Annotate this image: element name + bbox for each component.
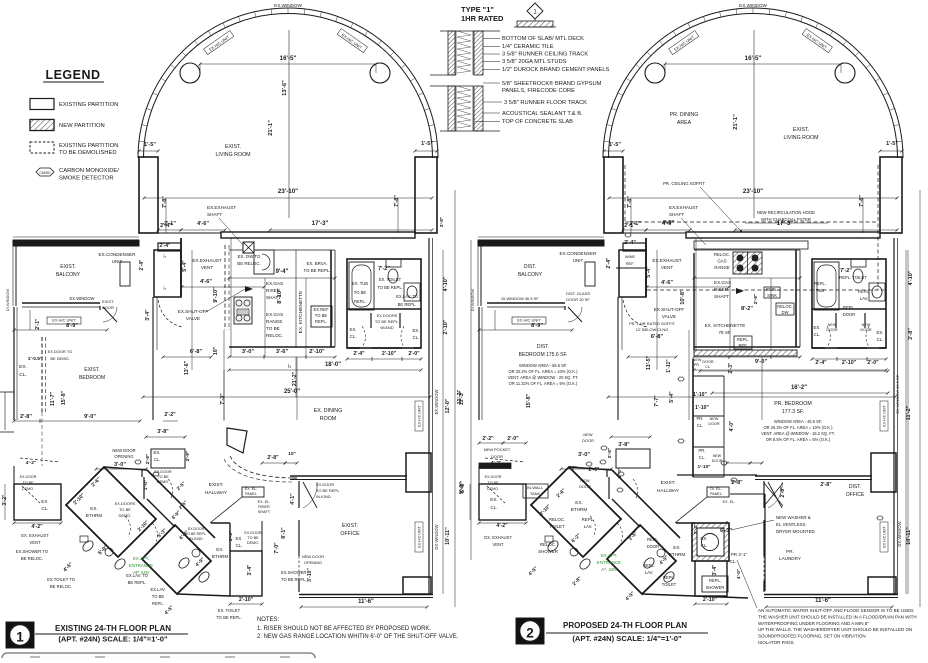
svg-text:2'-3": 2'-3" (728, 362, 734, 373)
svg-text:LEGEND: LEGEND (45, 68, 100, 82)
svg-text:2'-0": 2'-0" (507, 436, 519, 442)
svg-text:PANEL: PANEL (245, 492, 257, 496)
svg-text:NOTES:: NOTES: (257, 617, 279, 623)
svg-text:LAV.: LAV. (584, 524, 593, 529)
svg-text:DOOR 20 SF: DOOR 20 SF (566, 297, 590, 302)
svg-text:PR.: PR. (694, 363, 700, 367)
svg-text:UNIT: UNIT (112, 259, 123, 264)
svg-text:2'-0": 2'-0" (867, 360, 879, 366)
svg-text:HALLWAY: HALLWAY (657, 488, 680, 494)
svg-text:3'-0": 3'-0" (242, 349, 255, 355)
svg-text:IN-KIND: IN-KIND (316, 494, 331, 499)
svg-text:2'-10": 2'-10" (382, 351, 397, 357)
svg-text:12' BELOW CLNG: 12' BELOW CLNG (636, 327, 669, 332)
svg-text:TOILET: TOILET (549, 524, 565, 529)
svg-text:DI.WINDOW 36.5 SF: DI.WINDOW 36.5 SF (501, 296, 539, 301)
svg-text:EX.: EX. (575, 500, 582, 505)
svg-text:4'-6": 4'-6" (662, 220, 674, 226)
svg-text:CL.: CL. (413, 335, 420, 340)
svg-text:DW: DW (782, 310, 789, 315)
svg-text:TO BE: TO BE (488, 481, 499, 485)
svg-text:DOOR: DOOR (860, 328, 872, 332)
svg-text:EXISTING PARTITION: EXISTING PARTITION (59, 143, 118, 149)
svg-text:2'-8": 2'-8" (145, 454, 151, 464)
svg-text:3'-8": 3'-8" (157, 429, 169, 435)
svg-text:23'-10": 23'-10" (278, 188, 298, 195)
svg-text:4'-0": 4'-0" (729, 420, 735, 431)
svg-text:REPL.: REPL. (858, 289, 870, 294)
svg-text:OR 26.3% OF FL. AREA = 10% (O.: OR 26.3% OF FL. AREA = 10% (O.K.) (764, 425, 834, 430)
svg-text:2'-9": 2'-9" (185, 451, 191, 461)
svg-text:W/AND: W/AND (380, 325, 393, 330)
svg-text:4'-2": 4'-2" (496, 523, 508, 529)
svg-text:NEW: NEW (828, 323, 837, 327)
svg-text:BTHRM: BTHRM (571, 507, 588, 512)
svg-text:TO BE DEMOLISHED: TO BE DEMOLISHED (59, 150, 117, 156)
svg-text:DOOR: DOOR (826, 328, 838, 332)
svg-text:VALVE: VALVE (186, 316, 200, 321)
svg-text:AP. 24N: AP. 24N (133, 570, 149, 575)
svg-text:VENT: VENT (201, 265, 213, 270)
svg-text:RELOC.: RELOC. (777, 304, 792, 309)
svg-text:NEW: NEW (580, 478, 589, 483)
svg-text:11'-6": 11'-6" (358, 599, 374, 605)
svg-text:DEMO.: DEMO. (22, 487, 34, 491)
svg-text:BOTTOM OF SLAB/ MTL DECK: BOTTOM OF SLAB/ MTL DECK (502, 36, 584, 42)
svg-text:78 SF.: 78 SF. (718, 330, 731, 335)
svg-text:RANGE: RANGE (714, 265, 730, 270)
svg-text:EX.EXHAUST: EX.EXHAUST (192, 258, 221, 263)
svg-text:16'-2": 16'-2" (791, 385, 807, 391)
svg-text:OFFICE: OFFICE (340, 531, 360, 537)
svg-text:2'-8": 2'-8" (753, 294, 759, 304)
svg-text:BALCONY: BALCONY (518, 272, 543, 278)
svg-text:2'-4": 2'-4" (693, 524, 699, 534)
svg-text:SHAFT: SHAFT (258, 510, 271, 514)
svg-text:BEDROOM: BEDROOM (79, 375, 105, 381)
svg-text:EX. KITCHENETTE: EX. KITCHENETTE (705, 323, 746, 328)
svg-text:EX.: EX. (673, 545, 680, 550)
svg-text:RISER: RISER (266, 288, 281, 293)
svg-text:1/2" DUROCK BRAND CEMENT PANEL: 1/2" DUROCK BRAND CEMENT PANELS (502, 67, 610, 73)
svg-text:177.3 SF.: 177.3 SF. (782, 409, 804, 415)
svg-text:TO BE REPL.: TO BE REPL. (316, 488, 340, 493)
svg-text:EX.DOOR: EX.DOOR (154, 470, 172, 474)
svg-text:BE RELOC.: BE RELOC. (237, 261, 260, 266)
svg-text:5'-0": 5'-0" (460, 481, 466, 493)
svg-text:10'-11": 10'-11" (906, 527, 912, 545)
svg-text:BE DEMO.: BE DEMO. (50, 356, 69, 361)
svg-text:EX.CONDENSER: EX.CONDENSER (99, 252, 137, 257)
svg-text:2'-4": 2'-4" (606, 257, 612, 268)
svg-text:TO BE: TO BE (247, 536, 259, 540)
svg-text:RISER: RISER (258, 505, 270, 509)
svg-text:EX.DOOR: EX.DOOR (316, 482, 334, 487)
svg-text:OPENING: OPENING (304, 560, 322, 565)
svg-text:2'-6": 2'-6" (589, 467, 600, 473)
svg-text:EX.DOOR: EX.DOOR (20, 475, 37, 479)
svg-text:SINK: SINK (767, 293, 777, 298)
svg-text:REPL.: REPL. (354, 299, 366, 304)
svg-text:7'-0": 7'-0" (274, 542, 280, 554)
svg-text:9'-4": 9'-4" (276, 269, 289, 275)
svg-text:5/8" SHEETROCK® BRAND GYPSUM: 5/8" SHEETROCK® BRAND GYPSUM (502, 80, 602, 87)
svg-text:1'-0.5": 1'-0.5" (28, 356, 42, 362)
svg-text:4'-6": 4'-6" (200, 279, 212, 285)
svg-text:2'-1": 2'-1" (624, 223, 636, 229)
svg-text:PR.: PR. (786, 549, 794, 554)
svg-text:EX.: EX. (412, 328, 419, 333)
svg-text:9'-0": 9'-0" (84, 414, 96, 420)
svg-text:UP THE WALLS. THE WASHER/DRYER: UP THE WALLS. THE WASHER/DRYER UNIT SHOU… (758, 627, 912, 632)
svg-text:DOOR: DOOR (491, 454, 503, 459)
svg-text:EX.WINDOW: EX.WINDOW (739, 3, 767, 8)
svg-text:EX.WINDOW 46.6 SF.: EX.WINDOW 46.6 SF. (895, 374, 900, 413)
svg-text:7'-2": 7'-2" (378, 266, 390, 272)
svg-text:BTHRM: BTHRM (212, 554, 229, 559)
svg-text:2: 2 (526, 626, 534, 641)
svg-text:EX.EXHAUST: EX.EXHAUST (652, 258, 681, 263)
svg-text:WINDOW AREA - 46.6 SF.: WINDOW AREA - 46.6 SF. (774, 419, 822, 424)
svg-text:2'-10": 2'-10" (309, 349, 325, 355)
svg-text:SHOWER: SHOWER (706, 585, 725, 590)
svg-text:2": 2" (287, 364, 292, 368)
svg-text:OR 8.5% OF FL. AREA = 5% (O.: OR 8.5% OF FL. AREA = 5% (O.K.) (766, 437, 831, 442)
svg-text:EX.: EX. (153, 450, 160, 455)
svg-text:TO BE: TO BE (23, 481, 34, 485)
svg-text:4'-6": 4'-6" (661, 280, 673, 286)
svg-text:REPL.: REPL. (582, 517, 595, 522)
svg-text:7'-3": 7'-3" (220, 393, 226, 405)
svg-text:WINE: WINE (625, 254, 636, 259)
svg-text:EX. TOILET: EX. TOILET (218, 608, 241, 613)
svg-text:CL.: CL. (705, 365, 711, 369)
svg-text:EX.EXHAUST: EX.EXHAUST (669, 205, 698, 210)
svg-text:ENTRANCE: ENTRANCE (129, 563, 153, 568)
svg-text:EX.: EX. (235, 536, 242, 541)
svg-text:13'-6": 13'-6" (184, 360, 190, 375)
svg-text:RANGE: RANGE (266, 319, 282, 324)
svg-text:BTHRM: BTHRM (669, 552, 686, 557)
svg-text:21'-2": 21'-2" (292, 371, 298, 386)
svg-text:SHAFT: SHAFT (669, 212, 684, 217)
svg-text:DIST. GLASS: DIST. GLASS (566, 291, 590, 296)
svg-text:4'-2": 4'-2" (26, 460, 36, 466)
svg-text:VENT: VENT (29, 540, 41, 545)
svg-text:VALVE: VALVE (662, 314, 676, 319)
svg-text:ACOUSTICAL SEALANT T.& B.: ACOUSTICAL SEALANT T.& B. (502, 111, 583, 117)
svg-text:NEW: NEW (583, 432, 592, 437)
svg-text:13'-6": 13'-6" (282, 80, 288, 96)
svg-text:1'-11": 1'-11" (666, 359, 672, 373)
svg-text:EX. DINING: EX. DINING (314, 408, 342, 414)
svg-text:2'-8": 2'-8" (780, 486, 786, 497)
svg-text:REF.: REF. (626, 261, 635, 266)
svg-text:7'-8": 7'-8" (394, 195, 400, 207)
svg-text:IN-WALL: IN-WALL (527, 485, 544, 490)
svg-text:REPL.: REPL. (315, 319, 327, 324)
svg-text:TOP OF CONCRETE SLAB: TOP OF CONCRETE SLAB (502, 119, 573, 125)
svg-text:EX.SHUT-OFF: EX.SHUT-OFF (654, 307, 685, 312)
svg-text:7'-2": 7'-2" (840, 268, 852, 274)
svg-text:PR. BEDROOM: PR. BEDROOM (774, 401, 811, 407)
svg-text:NEW WASHER &: NEW WASHER & (776, 515, 811, 520)
svg-text:2'-10": 2'-10" (703, 597, 718, 603)
svg-text:SOUNDPROOFED FLOORING, SET ON: SOUNDPROOFED FLOORING, SET ON VIBRATION (758, 634, 866, 639)
svg-text:7'-8": 7'-8" (162, 196, 168, 208)
svg-text:EX.CONDENSER: EX.CONDENSER (560, 251, 598, 256)
svg-text:CARBON MONOXIDE/: CARBON MONOXIDE/ (59, 168, 119, 174)
svg-text:EX.GAS: EX.GAS (714, 280, 731, 285)
svg-text:CM/SD: CM/SD (39, 171, 51, 175)
svg-text:TO BE: TO BE (315, 313, 328, 318)
svg-text:HALLWAY: HALLWAY (205, 490, 228, 496)
svg-text:EX. TOILET: EX. TOILET (379, 277, 402, 282)
svg-text:AREA: AREA (677, 120, 692, 126)
svg-text:TO BE REPL.: TO BE REPL. (303, 268, 330, 273)
svg-text:8'-2": 8'-2" (741, 306, 753, 312)
svg-text:8'-1": 8'-1" (281, 527, 287, 539)
svg-text:CL.: CL. (730, 559, 737, 564)
svg-text:EX.SHOWER: EX.SHOWER (281, 570, 306, 575)
svg-text:10'-8": 10'-8" (680, 289, 686, 305)
svg-text:7'-8": 7'-8" (859, 195, 865, 207)
svg-text:EX.SHOWER TO: EX.SHOWER TO (16, 549, 49, 554)
svg-text:EX.: EX. (813, 325, 820, 330)
svg-text:LAV.: LAV. (645, 570, 653, 575)
svg-text:EX. EL.: EX. EL. (723, 500, 736, 504)
svg-text:CL.: CL. (41, 506, 48, 511)
svg-text:11'-2": 11'-2" (906, 405, 912, 420)
svg-text:2'-4": 2'-4" (624, 240, 636, 246)
svg-text:13'-5": 13'-5" (646, 355, 652, 370)
svg-text:2'-10": 2'-10" (239, 597, 254, 603)
svg-text:1'-5": 1'-5" (609, 142, 621, 148)
svg-text:REPL.: REPL. (663, 575, 675, 580)
svg-text:VENT. AREA @ WINDOW - 20 SQ. F: VENT. AREA @ WINDOW - 20 SQ. FT. (508, 375, 579, 380)
svg-text:RISER: RISER (714, 287, 729, 292)
svg-text:2": 2" (162, 254, 167, 258)
svg-text:RELOC.: RELOC. (540, 542, 556, 547)
svg-text:PANELS, FIRECODE CORE: PANELS, FIRECODE CORE (502, 88, 575, 94)
svg-text:WATERPROOFING UNDER FLOORING A: WATERPROOFING UNDER FLOORING AND A MIN 6… (758, 621, 869, 626)
svg-text:EX.REF: EX.REF (313, 307, 328, 312)
svg-text:10": 10" (213, 346, 219, 355)
svg-text:EX. DW TO: EX. DW TO (238, 254, 261, 259)
svg-text:3 5/8" 20GA MTL STUDS: 3 5/8" 20GA MTL STUDS (502, 59, 567, 65)
svg-text:3'-0": 3'-0" (114, 462, 126, 468)
svg-text:EX. EL.: EX. EL. (245, 487, 258, 491)
svg-text:RELOC.: RELOC. (549, 517, 565, 522)
svg-text:TO BE REPL.: TO BE REPL. (281, 577, 307, 582)
svg-text:DRYER MOUNTED: DRYER MOUNTED (776, 529, 815, 534)
svg-text:3'-0": 3'-0" (578, 452, 590, 458)
svg-text:EX.DOORS: EX.DOORS (377, 313, 398, 318)
svg-text:3 5/8" RUNNER FLOOR TRACK: 3 5/8" RUNNER FLOOR TRACK (504, 100, 587, 106)
svg-text:EX.: EX. (876, 330, 883, 335)
svg-text:CL.: CL. (350, 334, 357, 339)
svg-text:1/4" CERAMIC TILE: 1/4" CERAMIC TILE (502, 44, 554, 50)
svg-text:DX. EXHAUST: DX. EXHAUST (484, 535, 512, 540)
svg-text:2'-4": 2'-4" (160, 243, 171, 249)
svg-text:BTHRM: BTHRM (86, 513, 103, 518)
svg-text:LAV.: LAV. (860, 296, 868, 301)
svg-text:ROOM: ROOM (320, 416, 336, 422)
svg-text:NEW: NEW (693, 358, 702, 362)
svg-text:2. NEW GAS RANGE LOCATION WHIT: 2. NEW GAS RANGE LOCATION WHITIN 6'-0" O… (257, 634, 459, 640)
svg-text:SHAFT: SHAFT (207, 212, 222, 217)
svg-text:DOOR: DOOR (579, 484, 591, 489)
svg-text:2'-10": 2'-10" (443, 319, 449, 334)
svg-text:TO BE REPL.: TO BE REPL. (185, 532, 207, 536)
svg-text:RELOC.: RELOC. (714, 252, 730, 257)
svg-text:EX.DOOR: EX.DOOR (485, 475, 502, 479)
svg-text:DI.WINDOW: DI.WINDOW (5, 289, 10, 312)
svg-text:GAS: GAS (717, 259, 726, 264)
svg-text:NEW: NEW (713, 454, 722, 458)
svg-text:DOOR: DOOR (702, 360, 714, 364)
svg-text:TYPE "1": TYPE "1" (461, 5, 494, 14)
svg-text:7'-7": 7'-7" (654, 395, 660, 407)
svg-text:NEW: NEW (862, 323, 871, 327)
svg-text:PR.: PR. (699, 448, 706, 453)
svg-text:1'-5": 1'-5" (421, 141, 433, 147)
svg-text:5'-4": 5'-4" (646, 266, 652, 278)
svg-text:25'-0": 25'-0" (284, 389, 300, 395)
svg-text:6'-8": 6'-8" (651, 334, 664, 340)
svg-text:EX.APT.: EX.APT. (601, 553, 617, 558)
svg-text:DEMO.: DEMO. (119, 513, 132, 518)
svg-text:8'-9": 8'-9" (66, 323, 78, 329)
svg-text:PR 3'-1": PR 3'-1" (731, 552, 748, 557)
svg-text:EX.DOORS: EX.DOORS (115, 501, 136, 506)
svg-text:PANEL: PANEL (710, 492, 722, 496)
svg-text:REPL.: REPL. (152, 601, 164, 606)
svg-text:21'-1": 21'-1" (268, 120, 274, 136)
svg-text:11'-7": 11'-7" (50, 392, 56, 406)
svg-text:EX.H/C UNIT: EX.H/C UNIT (418, 405, 422, 427)
svg-text:CL.: CL. (236, 543, 243, 548)
svg-text:2'-8": 2'-8" (820, 482, 832, 488)
svg-text:EX.H/C UNIT: EX.H/C UNIT (883, 526, 887, 548)
svg-text:EX.DOOR: EX.DOOR (244, 531, 262, 535)
svg-text:DIST.: DIST. (537, 344, 549, 350)
svg-text:3'-8": 3'-8" (908, 328, 914, 340)
svg-text:REPL.: REPL. (843, 305, 855, 310)
svg-text:6'-8": 6'-8" (190, 349, 203, 355)
svg-text:1. RISER SHOULD NOT BE AFFECT: 1. RISER SHOULD NOT BE AFFECTED BY PROPO… (257, 626, 431, 632)
svg-text:1: 1 (16, 630, 24, 645)
svg-text:17'-3": 17'-3" (312, 220, 329, 227)
svg-text:DEMO.: DEMO. (487, 487, 499, 491)
svg-text:BEDROOM 175.6 SF.: BEDROOM 175.6 SF. (519, 352, 568, 358)
svg-text:EXIST.: EXIST. (661, 480, 676, 486)
svg-text:BE RELOC.: BE RELOC. (21, 556, 43, 561)
svg-text:2'-1": 2'-1" (35, 318, 41, 329)
svg-text:REPL.: REPL. (643, 563, 655, 568)
svg-text:DOOR: DOOR (582, 438, 594, 443)
svg-text:4'-10": 4'-10" (908, 270, 914, 285)
svg-text:VENT. AREA @ WINDOW - 15.2 SQ.: VENT. AREA @ WINDOW - 15.2 SQ. FT. (761, 431, 835, 436)
svg-text:EX.SHUT-OFF: EX.SHUT-OFF (178, 309, 209, 314)
svg-text:DOOR: DOOR (647, 544, 659, 549)
svg-text:3'-4": 3'-4" (247, 564, 253, 575)
svg-text:EX.GAS: EX.GAS (266, 312, 283, 317)
svg-text:12'-0": 12'-0" (445, 398, 451, 413)
svg-text:WINDOW AREA - 56.5 SF.: WINDOW AREA - 56.5 SF. (519, 363, 567, 368)
svg-text:EX.: EX. (216, 547, 223, 552)
svg-text:OR 11.32% OF FL. AREA = 5% (O: OR 11.32% OF FL. AREA = 5% (O.K.) (509, 381, 578, 386)
svg-text:EX.H/C UNIT: EX.H/C UNIT (418, 526, 422, 548)
svg-text:SHAFT: SHAFT (714, 294, 729, 299)
svg-text:16'-5": 16'-5" (745, 55, 762, 62)
svg-text:RELOC.: RELOC. (266, 333, 283, 338)
svg-text:2'-4": 2'-4" (160, 223, 172, 229)
svg-text:EX. TUB: EX. TUB (352, 281, 368, 286)
svg-text:1'-10": 1'-10" (697, 464, 710, 470)
svg-text:3 5/8" RUNNER CEILING TRACK: 3 5/8" RUNNER CEILING TRACK (502, 52, 588, 58)
svg-text:CL.: CL. (19, 372, 27, 378)
svg-text:VENT: VENT (661, 265, 673, 270)
svg-text:REPL.: REPL. (647, 537, 659, 542)
svg-text:REF.: REF. (738, 343, 747, 348)
svg-text:2'-8": 2'-8" (731, 480, 743, 486)
svg-text:EXIST.: EXIST. (342, 523, 358, 529)
svg-text:1'-0": 1'-0" (143, 480, 149, 490)
svg-text:TO BE: TO BE (119, 507, 131, 512)
svg-text:BE REPL.: BE REPL. (398, 302, 417, 307)
svg-text:2'-4": 2'-4" (815, 360, 827, 366)
svg-text:(APT. #24N) SCALE: 1/4"=1'-0": (APT. #24N) SCALE: 1/4"=1'-0" (58, 635, 168, 644)
svg-text:PROPOSED 24-TH FLOOR PLAN: PROPOSED 24-TH FLOOR PLAN (563, 621, 687, 630)
svg-text:EX.: EX. (19, 364, 27, 370)
svg-text:SHOWER: SHOWER (538, 549, 558, 554)
svg-text:EX.WINDOW: EX.WINDOW (274, 3, 302, 8)
svg-text:CL.: CL. (154, 457, 161, 462)
svg-text:DEMO.: DEMO. (157, 480, 169, 484)
svg-text:EX.: EX. (90, 506, 97, 511)
svg-text:OPENING: OPENING (114, 454, 133, 459)
svg-text:3'-8": 3'-8" (439, 217, 445, 227)
svg-text:REPL.: REPL. (766, 287, 778, 292)
svg-text:DI.WINDOW: DI.WINDOW (470, 289, 475, 312)
svg-text:EX.LAV.: EX.LAV. (150, 587, 165, 592)
svg-text:6'-3": 6'-3" (720, 528, 732, 534)
svg-text:1'-5": 1'-5" (886, 141, 898, 147)
svg-text:DEMO.: DEMO. (247, 541, 259, 545)
svg-text:TO BE: TO BE (354, 290, 367, 295)
svg-text:UNIT: UNIT (573, 258, 584, 263)
svg-text:VENT: VENT (492, 542, 504, 547)
svg-text:CL.: CL. (697, 423, 703, 428)
svg-text:2'-8": 2'-8" (607, 448, 613, 458)
svg-text:11'-3": 11'-3" (459, 390, 465, 405)
svg-text:NEW: NEW (710, 417, 719, 421)
svg-text:3'-2": 3'-2" (2, 494, 8, 505)
svg-text:PR. 1 HR RATED SOFFIT: PR. 1 HR RATED SOFFIT (629, 321, 676, 326)
svg-text:CL.: CL. (490, 505, 497, 510)
svg-text:TUB: TUB (816, 288, 825, 293)
svg-text:18'-0": 18'-0" (325, 362, 341, 368)
svg-text:DX.WINDOW: DX.WINDOW (434, 524, 439, 549)
svg-text:NEW DOOR: NEW DOOR (112, 448, 135, 453)
svg-text:TO BE REPL.: TO BE REPL. (377, 285, 403, 290)
svg-text:SHAFT: SHAFT (266, 295, 281, 300)
svg-text:BALCONY: BALCONY (56, 272, 81, 278)
svg-text:NEW RECIRCULATION HOOD: NEW RECIRCULATION HOOD (757, 210, 815, 215)
svg-text:2'-4": 2'-4" (139, 259, 145, 270)
svg-text:TOILET: TOILET (662, 582, 677, 587)
